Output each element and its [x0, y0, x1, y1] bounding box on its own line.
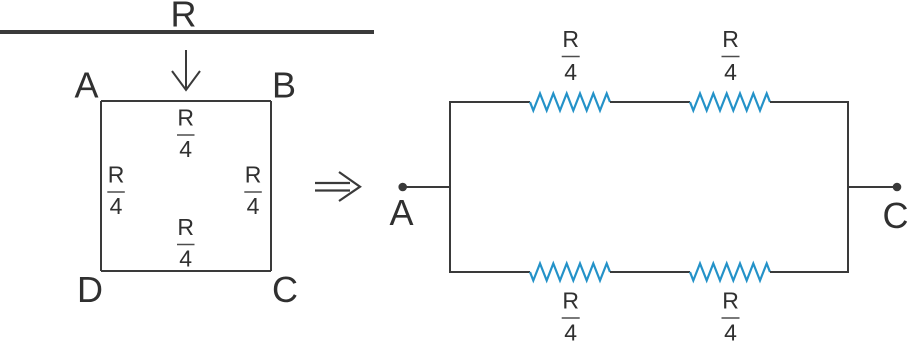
wire bottom segment 3 [770, 271, 849, 273]
implies arrow [315, 172, 360, 201]
wire node A lead [403, 186, 450, 188]
svg-text:4: 4 [724, 320, 737, 346]
wire top segment 2 [610, 101, 690, 103]
svg-text:C: C [272, 269, 298, 310]
svg-text:R: R [722, 26, 739, 52]
svg-text:A: A [74, 65, 98, 106]
svg-text:R: R [562, 288, 579, 314]
resistor R/4 bottom-left zigzag [530, 264, 610, 281]
node A terminal dot [398, 183, 407, 192]
svg-text:4: 4 [179, 136, 192, 162]
svg-text:C: C [883, 195, 908, 236]
value label R/4 (bottom-right resistor) [722, 288, 740, 346]
resistor R/4 top-left zigzag [530, 94, 610, 111]
resistor R/4 side AB [101, 100, 271, 102]
value label R/4 (top-right resistor) [722, 26, 740, 85]
value label R/4 (left side) [107, 162, 125, 220]
wire node C lead [848, 186, 897, 188]
resistor R/4 side BC [270, 101, 272, 271]
wire top segment 3 [770, 101, 849, 103]
resistor R (straight wire) [0, 30, 374, 34]
wire top segment 1 [449, 101, 530, 103]
svg-text:4: 4 [564, 59, 577, 85]
value label R/4 (top side) [177, 105, 195, 163]
value label R/4 (top-left resistor) [562, 26, 580, 85]
arrow (bend into square) [172, 50, 200, 90]
value label R/4 (bottom-left resistor) [562, 288, 580, 346]
resistor R/4 side DC [101, 270, 271, 272]
svg-text:4: 4 [110, 193, 123, 219]
resistor R/4 side AD [100, 101, 102, 271]
wire left vertical [449, 102, 451, 272]
svg-text:4: 4 [247, 193, 260, 219]
value label R/4 (right side) [244, 162, 261, 220]
wire right vertical [847, 102, 849, 272]
resistor R/4 bottom-right zigzag [690, 264, 770, 281]
svg-text:R: R [177, 105, 194, 131]
svg-text:4: 4 [724, 59, 737, 85]
svg-text:B: B [272, 65, 296, 106]
svg-text:D: D [77, 269, 103, 310]
svg-text:R: R [171, 0, 197, 35]
wire bottom segment 2 [610, 271, 690, 273]
svg-text:R: R [562, 26, 579, 52]
svg-text:R: R [245, 162, 262, 188]
resistor R/4 top-right zigzag [690, 94, 770, 111]
svg-text:A: A [389, 192, 413, 233]
svg-text:R: R [177, 214, 194, 240]
svg-text:R: R [108, 162, 125, 188]
wire bottom segment 1 [449, 271, 530, 273]
node C terminal dot [893, 183, 902, 192]
svg-text:4: 4 [564, 320, 577, 346]
svg-text:4: 4 [179, 246, 192, 272]
value label R/4 (bottom side) [177, 214, 195, 272]
svg-text:R: R [722, 288, 739, 314]
